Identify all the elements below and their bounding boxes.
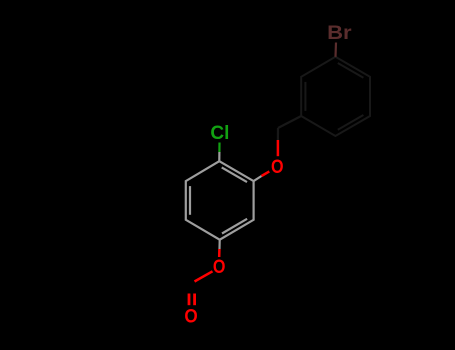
- wire double bond inner V3V4: [222, 219, 247, 234]
- wire ring outline: [186, 161, 254, 240]
- wire double bond inner B5B6: [304, 82, 306, 111]
- wire double bond inner V1V2: [222, 167, 247, 182]
- wire Cl-ring bond: [218, 143, 220, 162]
- wire double bond inner B1B2: [338, 63, 364, 78]
- svg-text:O: O: [184, 305, 197, 327]
- svg-text:Br: Br: [327, 22, 351, 43]
- wire double bond inner V5V6: [189, 186, 191, 215]
- wire C=O double bond: [189, 294, 195, 306]
- wire O-CH2 bond: [277, 128, 280, 156]
- benzene ring (central, chlorophenyl): [186, 161, 254, 240]
- wire CH2-ring bond (benzylic): [278, 116, 301, 128]
- wire double bond inner B3B4: [338, 115, 364, 130]
- svg-text:O: O: [271, 156, 284, 178]
- svg-text:O: O: [213, 256, 226, 278]
- wire ring-O(ester) bond: [218, 240, 221, 257]
- svg-text:Cl: Cl: [210, 123, 229, 144]
- wire ring outline: [301, 57, 370, 136]
- wire Br-ring bond: [334, 43, 337, 57]
- wire ring-O(ether) bond: [254, 171, 270, 181]
- wire O-C(carbonyl) bond: [195, 271, 213, 281]
- benzene ring (bromophenyl, dark): [301, 57, 370, 136]
